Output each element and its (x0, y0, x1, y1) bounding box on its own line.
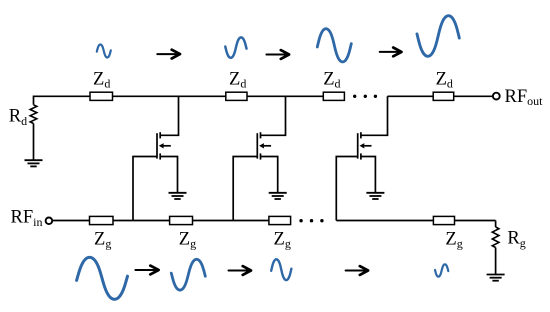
node RF_in terminal circle (46, 218, 53, 225)
svg-text:RFout: RFout (505, 87, 544, 108)
wire R_d to ground (33, 124, 35, 161)
wire drain line segment 2 (Z_d1 to Z_d2) (113, 95, 226, 97)
transmission line section Z_g2 (170, 216, 193, 224)
wire gate line segment 5 (Z_g4 to R_g corner) (455, 220, 496, 222)
wire drain line segment 1 (R_d corner to Z_d1) (34, 96, 91, 105)
wire drain line segment 4 (Q3 drain to Z_d4) (388, 95, 434, 97)
wire gate line segment 4 (Q3 gate to Z_g4) (336, 220, 433, 222)
transmission line section Z_g4 (433, 216, 454, 224)
wire gate line segment 1 (RF_in terminal to Z_g1) (52, 220, 89, 222)
transmission line section Z_g3 (269, 216, 291, 224)
transmission line section Z_d3 (323, 92, 344, 100)
svg-text:RFin: RFin (11, 208, 43, 229)
signal waveform top 3 (317, 29, 351, 62)
wire drain line segment 3 (Z_d2 to Z_d3) (247, 95, 323, 97)
ground (Q2 source) (269, 193, 287, 199)
wire gate line segment 3 (Z_g2 to Z_g3) (193, 220, 269, 222)
transistor Q3 (FET 3) (336, 96, 387, 220)
transmission line section Z_d2 (226, 92, 247, 100)
wire drain line segment 5 (Z_d4 to RF_out terminal) (454, 95, 493, 97)
wire R_g to ground (495, 248, 497, 275)
continuation dots (gate line) (299, 219, 323, 222)
resistor R_g (gate line termination) (492, 227, 499, 248)
signal waveform bottom 4 (smallest) (435, 264, 448, 276)
svg-text:Zg: Zg (179, 229, 196, 250)
svg-text:Zg: Zg (94, 229, 111, 250)
transistor Q2 (FET 2) (233, 96, 285, 220)
node RF_out terminal circle (493, 93, 500, 100)
transmission line section Z_g1 (90, 216, 114, 224)
signal waveform bottom 1 (input, largest) (77, 257, 128, 299)
svg-text:Zd: Zd (436, 69, 453, 90)
ground (Q1 source) (169, 193, 187, 199)
arrow bottom 1 (signal decay) (135, 266, 158, 275)
svg-text:Rg: Rg (507, 229, 525, 250)
ground (R_d) (25, 160, 43, 166)
svg-text:Zd: Zd (323, 69, 340, 90)
svg-text:Zg: Zg (274, 229, 291, 250)
wire R_g corner down (495, 221, 497, 228)
node: gate line (bottom bus) (52, 220, 495, 222)
svg-text:Zd: Zd (229, 69, 246, 90)
svg-text:Rd: Rd (9, 107, 27, 128)
signal waveform bottom 3 (271, 259, 291, 280)
arrow top 2 (signal growth) (266, 50, 289, 59)
transmission line section Z_d1 (90, 92, 113, 100)
arrow top 3 (signal growth) (380, 48, 402, 57)
signal waveform top 2 (225, 37, 246, 57)
signal waveform top 1 (small, after stage 1) (97, 45, 111, 58)
wire gate line segment 2 (Z_g1 to Z_g2) (113, 220, 170, 222)
svg-text:Zg: Zg (445, 229, 462, 250)
arrow bottom 3 (signal decay) (346, 266, 369, 275)
ground (R_g) (487, 275, 505, 281)
resistor R_d (drain line termination) (30, 105, 37, 124)
node: drain line (top bus) (34, 96, 493, 105)
ground (Q3 source) (366, 193, 384, 199)
signal waveform top 4 (largest, at output) (417, 16, 459, 57)
transmission line section Z_d4 (433, 92, 454, 100)
arrow top 1 (signal growth) (157, 50, 180, 59)
signal waveform bottom 2 (171, 259, 205, 290)
svg-text:Zd: Zd (93, 69, 110, 90)
continuation dots (drain line) (353, 95, 377, 98)
transistor Q1 (FET 1) (133, 96, 179, 220)
arrow bottom 2 (signal decay) (229, 266, 252, 275)
